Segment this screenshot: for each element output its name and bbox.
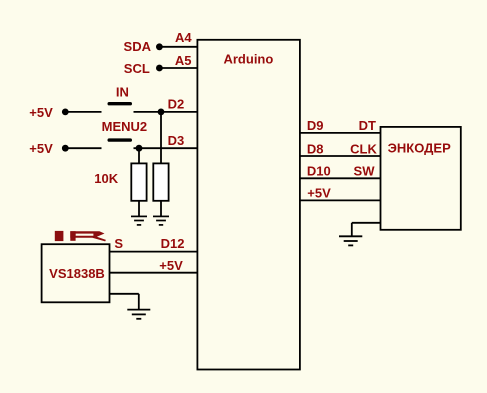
node +5V terminal dot (MENU2 row) <box>62 145 69 152</box>
svg-text:+5V: +5V <box>29 141 53 156</box>
junction dot node D3 <box>136 145 143 152</box>
switch S1 IN lever bar <box>109 102 130 105</box>
wire Arduino D10 to encoder SW <box>300 177 381 179</box>
svg-text:A5: A5 <box>175 53 192 68</box>
wire node D3 down to resistor R1 <box>138 148 140 163</box>
wire Arduino D9 to encoder DT <box>300 132 381 134</box>
ground (VS1838B) <box>127 310 150 319</box>
wire +5V to switch MENU2 left contact <box>65 147 101 149</box>
svg-text:D9: D9 <box>307 118 324 133</box>
wire Arduino D8 to encoder CLK <box>300 155 381 157</box>
wire SDA to Arduino A4 <box>159 46 197 48</box>
node SDA terminal dot <box>156 43 163 50</box>
wire encoder gnd vertical <box>351 223 353 237</box>
svg-text:+5V: +5V <box>159 258 183 273</box>
junction dot node D2 <box>158 109 165 116</box>
wire switch IN right contact to D2 node <box>134 111 198 113</box>
svg-text:IN: IN <box>116 85 129 100</box>
switch S2 MENU2 lever bar <box>109 138 130 141</box>
svg-text:D10: D10 <box>307 164 331 179</box>
IC U2 VS1838B box <box>42 244 110 302</box>
wire R1 bottom to ground <box>138 201 140 217</box>
op-amp U1 Arduino box <box>197 40 300 370</box>
svg-text:10K: 10K <box>94 171 118 186</box>
svg-text:D2: D2 <box>168 96 185 111</box>
svg-text:CLK: CLK <box>350 141 377 156</box>
wire VS1838B gnd horizontal <box>110 293 139 295</box>
wire switch MENU2 right contact to Arduino D3 <box>134 147 198 149</box>
resistor R2 10K <box>153 163 168 200</box>
wire VS1838B gnd vertical <box>138 294 140 310</box>
svg-text:SDA: SDA <box>124 39 152 54</box>
wire R2 bottom to ground <box>160 201 162 217</box>
wire VS1838B S to Arduino D12 <box>110 251 198 253</box>
svg-text:DT: DT <box>359 118 376 133</box>
ground (R1) <box>131 216 147 225</box>
wire SCL to Arduino A5 <box>159 67 197 69</box>
wire node D2 down to resistor R2 <box>160 112 162 163</box>
svg-text:D12: D12 <box>161 236 185 251</box>
svg-text:Arduino: Arduino <box>223 52 273 67</box>
svg-text:VS1838B: VS1838B <box>49 266 105 281</box>
svg-text:D3: D3 <box>168 133 185 148</box>
logo IR <box>55 231 106 242</box>
svg-text:SW: SW <box>354 164 376 179</box>
svg-text:SCL: SCL <box>124 61 150 76</box>
svg-text:A4: A4 <box>175 30 192 45</box>
wire +5V to switch IN left contact <box>65 111 101 113</box>
svg-text:ЭНКОДЕР: ЭНКОДЕР <box>388 140 451 155</box>
wire VS1838B Vcc to Arduino +5V <box>110 272 198 274</box>
ground (encoder) <box>339 236 362 245</box>
svg-text:D8: D8 <box>307 141 324 156</box>
wire encoder gnd horizontal <box>352 222 381 224</box>
node +5V terminal dot (IN row) <box>62 109 69 116</box>
svg-text:S: S <box>114 236 123 251</box>
node SCL terminal dot <box>156 65 163 72</box>
resistor R1 10K <box>131 163 146 200</box>
IC U3 encoder box <box>381 127 461 230</box>
svg-text:+5V: +5V <box>29 105 53 120</box>
ground (R2) <box>153 216 169 225</box>
svg-text:+5V: +5V <box>307 186 331 201</box>
wire Arduino +5V to encoder <box>300 199 381 201</box>
svg-text:MENU2: MENU2 <box>102 119 148 134</box>
